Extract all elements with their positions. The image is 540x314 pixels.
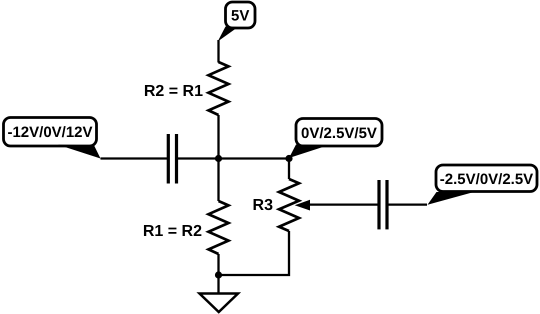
resistor R1 <box>209 201 229 254</box>
wire capacitor C1 to node A <box>177 157 290 159</box>
callout 0V/2.5V/5V <box>289 119 382 159</box>
node C (bottom junction) <box>215 271 222 278</box>
node A (center junction) <box>215 155 222 162</box>
resistor R3 (with wiper arrow) <box>279 179 299 231</box>
svg-text:R2 = R1: R2 = R1 <box>144 83 203 100</box>
wire left segment (callout tip to capacitor C1) <box>101 157 169 159</box>
wire from 5V tail to R2 top <box>217 40 219 63</box>
wire node B to R3 top <box>288 159 290 180</box>
svg-text:5V: 5V <box>231 8 249 25</box>
wire center node to R1 top <box>217 159 219 202</box>
callout -2.5V/0V/2.5V <box>428 165 538 205</box>
svg-text:R3: R3 <box>253 197 274 214</box>
svg-text:R1 = R2: R1 = R2 <box>143 223 202 240</box>
resistor R2 <box>209 62 229 115</box>
wire bottom node to R3 bottom <box>219 231 290 275</box>
svg-text:0V/2.5V/5V: 0V/2.5V/5V <box>301 125 377 142</box>
wire capacitor C2 to right callout tip <box>387 203 427 205</box>
wire R2 bottom to center node <box>217 115 219 159</box>
callout 5V <box>218 2 255 42</box>
ground <box>200 294 239 313</box>
wire bottom node to ground <box>217 275 219 294</box>
wiper arrowhead <box>295 200 310 211</box>
svg-text:-12V/0V/12V: -12V/0V/12V <box>7 124 92 141</box>
wire arrowhead to capacitor C2 <box>308 203 379 205</box>
capacitor C1 <box>168 134 176 184</box>
callout -12V/0V/12V <box>4 118 101 159</box>
capacitor C2 <box>379 180 387 229</box>
node B (right junction) <box>285 155 292 162</box>
svg-text:-2.5V/0V/2.5V: -2.5V/0V/2.5V <box>440 171 533 188</box>
wire R1 bottom to ground node <box>217 254 219 275</box>
